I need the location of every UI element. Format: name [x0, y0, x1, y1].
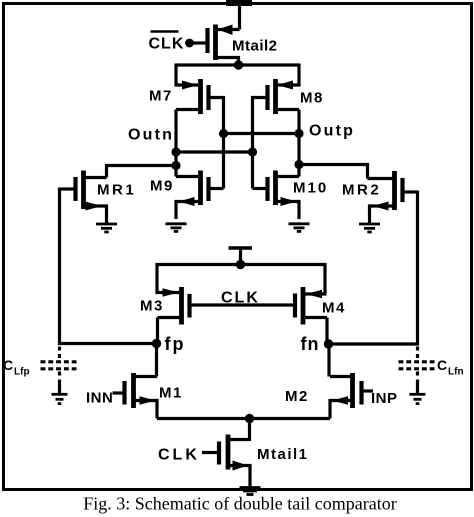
transistor M8 (PMOS) — [268, 64, 300, 115]
transistor M1 (NMOS) — [113, 373, 158, 419]
node: Outp-MR2 junction — [294, 160, 303, 169]
svg-text:M1: M1 — [159, 385, 183, 402]
wire: M8 gate down-link — [253, 98, 268, 189]
wire: Outn cross-couple link — [176, 150, 253, 153]
node: fp — [152, 339, 161, 348]
transistor M4 (PMOS) — [295, 263, 327, 325]
label C_Lfn — [437, 357, 464, 378]
transistor Mtail2 (PMOS) — [208, 25, 240, 64]
svg-text:M2: M2 — [285, 388, 309, 405]
ground: C_Lfp — [52, 394, 68, 403]
node: junction M8 gate line — [248, 147, 257, 156]
node: fn — [324, 339, 333, 348]
node: Outn-MR1 junction — [171, 161, 180, 170]
svg-text:Outn: Outn — [128, 127, 174, 144]
svg-text:M10: M10 — [293, 180, 328, 197]
transistor M9 (NMOS) — [176, 171, 224, 220]
node: CLK input dot — [185, 39, 194, 48]
ground: MR1 source — [96, 224, 117, 232]
transistor Mtail1 (NMOS) — [202, 419, 250, 487]
svg-text:CLK: CLK — [158, 447, 200, 464]
svg-text:Mtail2: Mtail2 — [232, 38, 278, 55]
wire: left feedback MR1 gate to fp — [60, 188, 153, 344]
wire: VDD bar to Mtail2 drain — [238, 3, 241, 30]
node: T rail junction — [236, 260, 245, 269]
wire: fn to M2 drain — [327, 344, 330, 377]
wire: CLK dot to Mtail2 gate — [190, 41, 206, 44]
capacitor C_Lfn (dashed load cap) — [399, 347, 435, 395]
svg-text:INN: INN — [86, 390, 113, 407]
ground: M9 source — [166, 224, 187, 232]
svg-text:MR2: MR2 — [342, 182, 381, 199]
node: tail rail junction — [245, 414, 254, 423]
wire: M4 drain to fn — [325, 318, 328, 345]
svg-text:CLK: CLK — [221, 290, 260, 307]
svg-text:CLK: CLK — [149, 36, 185, 53]
svg-text:Lfn: Lfn — [448, 367, 464, 378]
label C_Lfp — [3, 357, 30, 378]
wire: Outp cross-couple link — [224, 132, 300, 135]
capacitor C_Lfp (dashed load cap) — [41, 347, 77, 395]
svg-text:fn: fn — [301, 334, 320, 354]
svg-text:M7: M7 — [149, 88, 173, 105]
svg-text:C: C — [3, 357, 13, 373]
node: junction at M7 drain — [171, 147, 180, 156]
svg-text:M8: M8 — [300, 90, 324, 107]
svg-text:Outp: Outp — [309, 123, 355, 140]
svg-text:C: C — [437, 357, 447, 373]
wire: Outn to MR1 drain — [107, 166, 177, 178]
wire: Outp to MR2 drain — [299, 165, 368, 179]
wire: M7 drain to Outn — [174, 110, 177, 177]
power rail VDD top bar — [226, 0, 252, 6]
svg-text:M9: M9 — [150, 178, 174, 195]
ground: C_Lfn — [410, 394, 426, 403]
node: Mtail2 source junction — [234, 60, 243, 69]
power: second stage VDD T symbol — [229, 248, 253, 262]
transistor M2 (NMOS) — [330, 373, 373, 419]
transistor MR2 (NMOS) — [368, 171, 418, 224]
wire: second-stage source rail — [157, 263, 325, 266]
wire: M7 gate down-link — [209, 98, 224, 189]
wire: CLK line M3 gate to M4 gate — [190, 303, 296, 306]
svg-text:M4: M4 — [322, 300, 346, 317]
svg-text:fp: fp — [165, 334, 186, 354]
svg-text:INP: INP — [371, 390, 398, 407]
svg-text:M3: M3 — [140, 298, 164, 315]
wire: first-stage source rail — [176, 63, 299, 66]
svg-text:MR1: MR1 — [97, 182, 136, 199]
wire: fp to M1 drain — [155, 344, 158, 377]
svg-text:Mtail1: Mtail1 — [257, 446, 309, 463]
ground: MR2 source — [359, 224, 380, 232]
node: junction at M8 drain — [294, 129, 303, 138]
wire: tail source rail — [157, 417, 330, 420]
svg-text:Lfp: Lfp — [14, 367, 30, 378]
transistor M3 (PMOS) — [157, 263, 190, 325]
wire: right feedback MR2 gate to fn — [333, 191, 418, 345]
wire: M8 drain to Outp — [297, 110, 300, 177]
ground: M10 source — [289, 224, 310, 232]
svg-text:Fig. 3: Schematic of double ta: Fig. 3: Schematic of double tail compara… — [83, 494, 396, 514]
node: junction M7 gate line — [219, 129, 228, 138]
transistor M10 (NMOS) — [253, 171, 300, 220]
label CLKbar (Mtail2 gate clock) — [149, 32, 185, 53]
transistor M7 (PMOS) — [176, 64, 209, 115]
transistor MR1 (NMOS) — [60, 171, 107, 225]
wire: M3 drain to fp — [156, 318, 159, 344]
ground: Mtail1 source — [240, 488, 261, 495]
